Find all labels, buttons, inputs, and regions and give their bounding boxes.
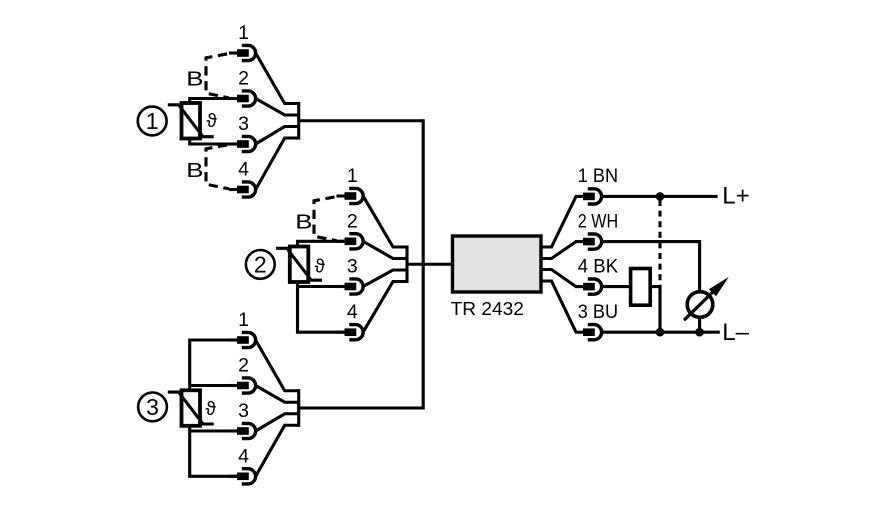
wire L+ rail (from pin 1 BN) [602,195,718,198]
svg-text:1: 1 [347,165,358,187]
output connector pin 1 BN [575,189,602,204]
junction dot L- rail at resistor branch [656,328,665,337]
sensor 3 pin number label 2 [238,355,249,377]
junction dot L+ rail [656,192,665,201]
meter (adjustable indicator) [684,277,729,320]
svg-text:3: 3 [238,113,249,135]
sensor 1 connector pin 1 [229,45,256,60]
label B sensor1 bottom bridge [186,159,203,182]
svg-text:B: B [295,211,312,234]
svg-text:2: 2 [238,68,249,90]
dashed wire from L+ junction down to resistor [658,200,661,287]
wire L- rail (from pin 3 BU) [602,331,720,334]
sensor 1 connector pin 3 [229,136,256,151]
thermistor RT3 (sensor 3) [168,390,214,426]
svg-text:1: 1 [238,22,249,44]
sensor 3 connector pin 2 [229,378,256,393]
sensor 1 pin number label 1 [238,22,249,44]
sensor 3 pin number label 1 [238,309,249,331]
sensor 2 connector pin 2 [337,234,364,249]
svg-text:3: 3 [238,400,249,422]
sensor 1 connector pin 4 [229,182,256,197]
sensor 2 pin number label 3 [347,256,358,278]
wire sensor1 output to bus [299,119,424,122]
label 2 WH [578,210,618,232]
svg-text:ϑ: ϑ [207,111,218,132]
junction dot L- rail at meter branch [695,328,704,337]
sensor 2 pin number label 4 [347,301,358,323]
sensor 2 connector pin 1 [337,188,364,203]
funnel splitter sensor 1 [256,53,299,190]
sensor 3 connector pin 1 [229,332,256,347]
sensor 2 circled label [246,250,275,279]
svg-text:L–: L– [722,319,749,346]
wire 4 BK to resistor [602,285,631,288]
svg-text:4: 4 [347,301,358,323]
sensor 2 connector pin 3 [337,279,364,294]
svg-text:3 BU: 3 BU [578,301,618,323]
svg-text:1: 1 [146,108,159,134]
svg-text:2 WH: 2 WH [578,210,618,232]
sensor 2 pin number label 2 [347,210,358,232]
svg-text:2: 2 [238,355,249,377]
wire sensor3 output to bus [299,406,424,409]
sensor 1 pin number label 3 [238,113,249,135]
svg-text:4 BK: 4 BK [578,255,618,277]
sensor 1 pin number label 4 [238,159,249,181]
svg-text:3: 3 [146,394,159,420]
bridge B sensor1 pins 3-4 (dashed) [206,145,229,189]
bridge B sensor1 pins 1-2 (dashed) [206,54,229,98]
svg-text:1 BN: 1 BN [578,165,618,187]
wire TR 2432 output 4 BK [541,270,576,287]
svg-text:TR 2432: TR 2432 [451,299,524,319]
svg-text:ϑ: ϑ [206,399,217,420]
thermistor RT1 value label ϑ [207,111,218,132]
bus vertical wire [422,119,425,409]
wire RT2 bottom to sensor2 pins 3 and 4 [298,282,345,332]
thermistor RT2 (sensor 2) [276,247,322,283]
sensor 1 pin number label 2 [238,68,249,90]
sensor 1 circled label [138,107,167,136]
funnel splitter sensor 3 [256,340,299,476]
wire RT1 bottom to sensor1 pin 3 [190,139,237,145]
svg-text:1: 1 [238,309,249,331]
label B sensor2 bridge [295,211,312,234]
wire RT1 top to sensor1 pin 2 [190,99,237,104]
resistor (load) R [631,269,651,306]
sensor 1 connector pin 2 [229,91,256,106]
wire resistor to L- rail [650,287,660,333]
sensor 3 pin number label 3 [238,400,249,422]
label L- [722,319,749,346]
svg-text:L+: L+ [722,182,749,209]
svg-text:4: 4 [238,445,249,467]
sensor 3 connector pin 3 [229,423,256,438]
output connector pin 4 BK [575,279,602,294]
label L+ [722,182,749,209]
label 3 BU [578,301,618,323]
thermistor RT3 value label ϑ [206,399,217,420]
svg-text:2: 2 [347,210,358,232]
svg-text:B: B [186,67,203,90]
sensor 3 circled label [138,393,167,422]
wire TR 2432 output 1 BN [541,196,576,247]
thermistor RT2 value label ϑ [315,257,326,278]
wire RT3 top to sensor3 pins 1 and 2 [190,340,237,390]
wire RT3 bottom to sensor3 pins 3 and 4 [190,426,237,477]
sensor 3 connector pin 4 [229,469,256,484]
wire 2 WH to meter [602,242,700,291]
label TR 2432 [451,299,524,319]
funnel splitter sensor 2 [363,196,407,332]
output connector pin 2 WH [575,234,602,249]
wire meter to L- rail [698,319,701,333]
wire RT2 top to sensor2 pin 2 [298,241,345,246]
svg-text:4: 4 [238,159,249,181]
output connector pin 3 BU [575,325,602,340]
sensor 2 pin number label 1 [347,165,358,187]
svg-text:3: 3 [347,256,358,278]
thermistor RT1 (sensor 1) [168,103,214,139]
label 1 BN [578,165,618,187]
evaluation unit TR 2432 box [453,236,542,292]
sensor 3 pin number label 4 [238,445,249,467]
label 4 BK [578,255,618,277]
wire TR 2432 output 2 WH [541,242,576,259]
sensor 2 connector pin 4 [337,325,364,340]
svg-text:B: B [186,159,203,182]
label B sensor1 top bridge [186,67,203,90]
svg-text:ϑ: ϑ [315,257,326,278]
svg-text:2: 2 [254,252,267,278]
wire sensor2 output to TR 2432 input [407,263,453,266]
wire TR 2432 output 3 BU [541,281,576,332]
bridge B sensor2 pins 1-2 (dashed) [314,197,337,241]
